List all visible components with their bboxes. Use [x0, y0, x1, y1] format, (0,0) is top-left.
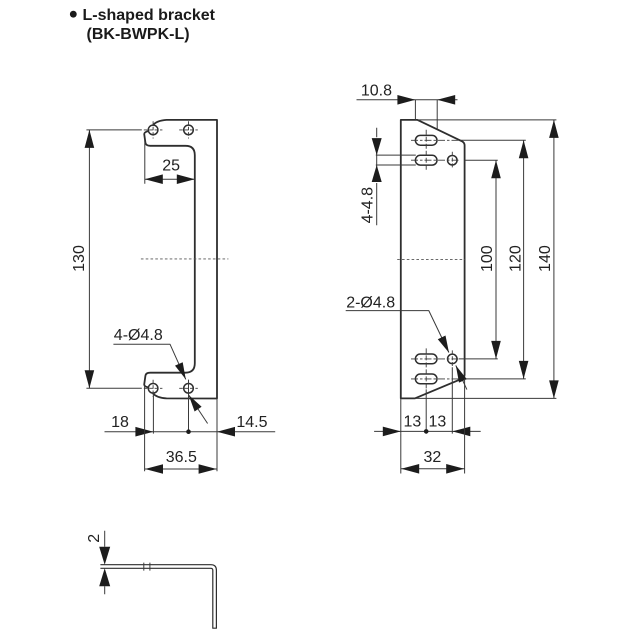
dimension 25	[145, 141, 195, 185]
dimension 4-4.8	[359, 128, 415, 226]
svg-text:L-shaped bracket: L-shaped bracket	[83, 7, 216, 24]
svg-text:13: 13	[404, 414, 422, 431]
label 2-diam4.8 with leader arrows	[346, 295, 467, 390]
dimension 120	[508, 140, 529, 379]
svg-text:(BK-BWPK-L): (BK-BWPK-L)	[87, 26, 190, 43]
right view bracket outline	[401, 120, 465, 399]
bottom icon: bracket side profile (thickness view)	[100, 563, 216, 629]
label 4-diam4.8 with leader arrows	[113, 327, 207, 424]
right view slot 3 (4.8x10.8)	[415, 354, 437, 364]
svg-text:2-Ø4.8: 2-Ø4.8	[346, 295, 395, 312]
svg-text:120: 120	[508, 245, 525, 272]
svg-text:18: 18	[111, 414, 129, 431]
svg-text:32: 32	[424, 449, 442, 466]
title bullet	[70, 11, 77, 18]
svg-text:130: 130	[71, 245, 88, 272]
dimension 140	[415, 120, 559, 399]
right view center dashed line	[397, 258, 465, 260]
left view top hole A (diam 4.8)	[144, 121, 163, 138]
left view bottom hole A (diam 4.8)	[144, 380, 163, 397]
svg-text:25: 25	[162, 158, 180, 175]
dimension 36.5	[145, 386, 217, 474]
dimension 2 (thickness)	[86, 531, 110, 594]
dimension 13 13	[374, 367, 481, 436]
svg-text:10.8: 10.8	[361, 82, 392, 99]
svg-text:140: 140	[537, 245, 554, 272]
left view bracket outline	[144, 120, 217, 399]
dimension 18 and 14.5	[105, 380, 276, 437]
right view lower round hole (diam 4.8)	[448, 354, 458, 364]
left view bottom hole B (diam 4.8)	[179, 380, 198, 397]
dimension 10.8	[357, 82, 458, 129]
svg-text:4-Ø4.8: 4-Ø4.8	[114, 327, 163, 344]
left view center dashed line	[141, 258, 229, 260]
svg-text:4-4.8: 4-4.8	[359, 187, 376, 224]
right view upper round hole (diam 4.8)	[448, 155, 458, 165]
svg-text:2: 2	[86, 534, 103, 543]
svg-text:100: 100	[479, 245, 496, 272]
dimension 130	[71, 130, 142, 388]
svg-text:14.5: 14.5	[236, 414, 267, 431]
right view center lines	[411, 130, 526, 390]
left view top hole B (diam 4.8)	[179, 121, 198, 138]
dimension 100	[479, 160, 501, 359]
svg-text:13: 13	[429, 414, 447, 431]
right view slot 4 (4.8x10.8)	[415, 374, 437, 384]
right view slot 2 (4.8x10.8)	[415, 155, 437, 165]
dimension 32	[401, 379, 465, 474]
svg-text:36.5: 36.5	[166, 449, 197, 466]
right view slot 1 (4.8x10.8)	[415, 135, 437, 145]
